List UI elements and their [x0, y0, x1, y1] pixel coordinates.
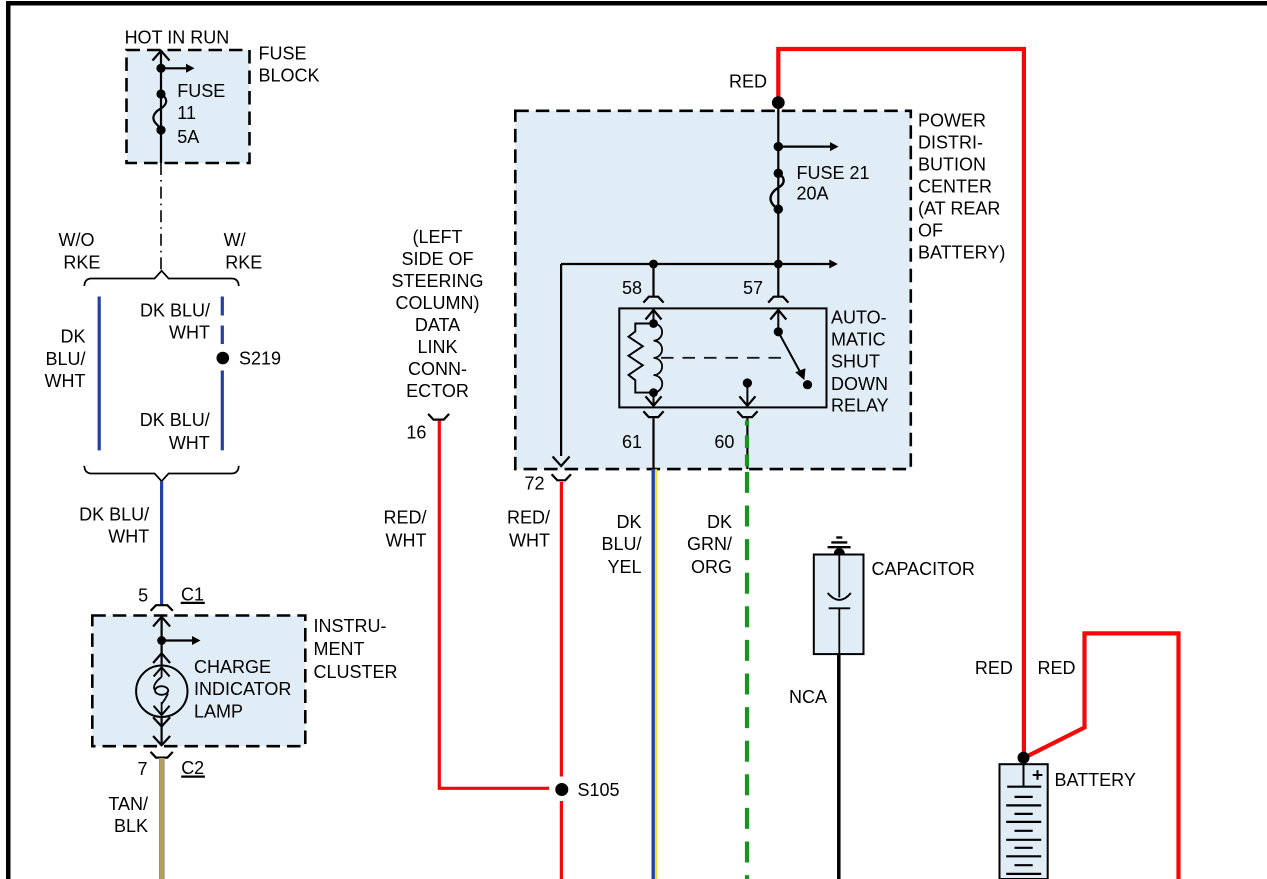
svg-text:5A: 5A	[177, 127, 199, 147]
wire RED battery feed top	[778, 49, 1024, 758]
wire DK BLU/YEL blue stripe	[652, 469, 655, 879]
coil relay	[654, 324, 663, 393]
svg-text:57: 57	[743, 278, 763, 298]
svg-text:RKE: RKE	[225, 253, 262, 273]
label POWER DISTRIBUTION CENTER	[918, 111, 1005, 263]
connector pin 72 symbol	[552, 474, 571, 480]
wire NCA from capacitor	[837, 654, 841, 879]
svg-text:7: 7	[137, 759, 147, 779]
svg-text:DATA: DATA	[415, 315, 460, 335]
node dot switch contact	[803, 380, 812, 389]
connector C2 symbol	[151, 752, 173, 758]
wire coil to pin 61	[653, 393, 655, 406]
label AUTOMATIC SHUT DOWN RELAY	[831, 307, 889, 415]
node dot fuse21 bottom	[774, 205, 783, 214]
svg-text:OF: OF	[918, 221, 943, 241]
svg-text:FUSE: FUSE	[259, 44, 307, 64]
svg-text:STEERING: STEERING	[391, 271, 483, 291]
brace split top	[84, 271, 239, 286]
svg-text:ORG: ORG	[691, 557, 732, 577]
svg-text:WHT: WHT	[509, 530, 550, 550]
battery positive terminal	[1023, 764, 1025, 787]
svg-text:DOWN: DOWN	[831, 374, 888, 394]
wire dash-dot below fuse block	[160, 163, 162, 270]
svg-text:MATIC: MATIC	[831, 330, 886, 350]
node dot pin60 contact	[743, 378, 752, 387]
connector C1 symbol	[151, 605, 173, 611]
svg-text:BLU/: BLU/	[45, 349, 85, 369]
svg-text:RED: RED	[729, 72, 767, 92]
connector pin 60 symbol	[737, 411, 757, 417]
arrow down below lamp	[153, 717, 170, 726]
svg-text:S105: S105	[578, 780, 620, 800]
node dot fuse lower terminal	[156, 125, 165, 134]
arrow up switch entry	[770, 310, 786, 320]
svg-text:11: 11	[177, 103, 196, 123]
lamp filament coil	[161, 667, 163, 677]
wire TAN/BLK	[159, 758, 165, 879]
svg-text:GRN/: GRN/	[687, 534, 732, 554]
wire bus horizontal with arrow	[561, 263, 830, 265]
lamp circle CHARGE INDICATOR LAMP	[136, 666, 187, 717]
svg-text:BLK: BLK	[114, 816, 148, 836]
svg-text:(AT REAR: (AT REAR	[918, 199, 1000, 219]
power distribution center box	[515, 111, 911, 469]
svg-text:CLUSTER: CLUSTER	[314, 662, 398, 682]
svg-text:CHARGE: CHARGE	[194, 657, 271, 677]
arrow down at pin 72 exit	[553, 457, 570, 467]
svg-text:ECTOR: ECTOR	[406, 381, 469, 401]
arrow right from PDC tap	[778, 146, 830, 148]
wire RED battery to right edge	[1024, 633, 1179, 879]
node dot fuse upper terminal	[156, 89, 165, 98]
fuse block box	[127, 50, 250, 163]
svg-text:WHT: WHT	[45, 371, 86, 391]
ground symbol above capacitor	[828, 538, 851, 548]
svg-text:SHUT: SHUT	[831, 352, 880, 372]
wire RED/WHT below S105	[560, 801, 563, 879]
svg-text:DK: DK	[616, 512, 641, 532]
node dot switch pivot	[774, 327, 783, 336]
battery plates	[1006, 787, 1041, 874]
connector pin 57 symbol	[768, 297, 788, 303]
wire DK GRN/ORG	[745, 472, 749, 879]
wire bus left drop to pin 72	[560, 264, 562, 456]
node dot PDC arrow tap	[774, 142, 783, 151]
svg-text:BATTERY: BATTERY	[1055, 770, 1136, 790]
svg-text:NCA: NCA	[789, 687, 827, 707]
svg-text:DK BLU/: DK BLU/	[79, 504, 149, 524]
wire RED/WHT from pin 72	[560, 482, 563, 777]
svg-text:58: 58	[622, 278, 642, 298]
svg-text:DK BLU/: DK BLU/	[140, 410, 210, 430]
svg-text:LINK: LINK	[417, 337, 457, 357]
node dot fuse21 top	[774, 169, 783, 178]
page border top	[6, 1, 1267, 6]
node dot battery positive	[1018, 752, 1030, 764]
relay box ASD	[619, 308, 826, 407]
brace merge bottom	[84, 466, 239, 481]
svg-text:BUTION: BUTION	[918, 155, 986, 175]
svg-text:LAMP: LAMP	[194, 701, 243, 721]
svg-text:CENTER: CENTER	[918, 177, 992, 197]
node dot bus junction 57	[774, 260, 783, 269]
arrow up relay coil entry	[646, 310, 662, 320]
arrow right from cluster node	[162, 639, 193, 641]
svg-text:(LEFT: (LEFT	[412, 227, 462, 247]
wire pin60 contact drop	[746, 383, 748, 406]
wire RED/WHT from DLC	[439, 421, 549, 789]
svg-text:MENT: MENT	[314, 639, 365, 659]
svg-text:16: 16	[406, 423, 426, 443]
wire PDC internal vertical	[777, 103, 779, 264]
connector DLC symbol	[428, 414, 449, 420]
svg-text:5: 5	[138, 586, 148, 606]
svg-text:C2: C2	[181, 758, 204, 778]
svg-text:20A: 20A	[797, 184, 829, 204]
wire below lamp	[161, 717, 163, 745]
splice S105	[555, 783, 568, 796]
arrow right from fuse top node	[161, 67, 187, 69]
svg-text:RED: RED	[975, 658, 1013, 678]
wire cluster internal top	[161, 617, 163, 666]
capacitor element	[828, 555, 851, 655]
wire DK BLU/WHT left branch	[98, 297, 101, 451]
wire pin 61 below relay	[652, 418, 654, 469]
node dot fuse top	[156, 64, 165, 73]
arrow up into HOT IN RUN	[153, 51, 170, 61]
svg-text:INDICATOR: INDICATOR	[194, 679, 291, 699]
instrument cluster box	[92, 616, 305, 747]
svg-text:61: 61	[622, 432, 642, 452]
wire DK GRN/ORG dashes inside PDC	[745, 421, 749, 426]
connector pin 58 symbol	[643, 297, 663, 303]
svg-text:BLU/: BLU/	[601, 534, 641, 554]
connector pin 61 symbol	[643, 411, 663, 417]
battery plus sign	[1033, 770, 1043, 780]
arrow down pin60 exit	[739, 396, 755, 406]
capacitor box	[814, 555, 864, 655]
arrow down coil exit	[646, 396, 662, 406]
svg-text:DISTRI-: DISTRI-	[918, 133, 983, 153]
svg-text:RED/: RED/	[383, 507, 426, 527]
battery box	[1000, 764, 1048, 879]
svg-text:SIDE OF: SIDE OF	[401, 249, 473, 269]
svg-text:WHT: WHT	[386, 530, 427, 550]
svg-text:RED: RED	[1038, 658, 1076, 678]
svg-text:BLOCK: BLOCK	[259, 66, 320, 86]
wire pin 57 drop	[777, 264, 779, 296]
svg-text:DK BLU/: DK BLU/	[140, 300, 210, 320]
svg-text:CAPACITOR: CAPACITOR	[872, 559, 975, 579]
page border left	[6, 1, 11, 879]
arrow up inside lamp	[154, 667, 170, 676]
svg-text:RED/: RED/	[507, 507, 550, 527]
svg-text:INSTRU-: INSTRU-	[314, 616, 387, 636]
svg-text:AUTO-: AUTO-	[831, 307, 887, 327]
svg-text:WHT: WHT	[169, 433, 210, 453]
node dot coil bottom	[649, 388, 658, 397]
svg-text:WHT: WHT	[169, 322, 210, 342]
svg-text:POWER: POWER	[918, 111, 986, 131]
svg-text:RKE: RKE	[63, 253, 100, 273]
svg-text:W/: W/	[224, 230, 246, 250]
svg-text:RELAY: RELAY	[831, 396, 889, 416]
svg-text:WHT: WHT	[108, 527, 149, 547]
node dot cluster	[157, 636, 166, 645]
wire DK BLU/WHT merged	[160, 481, 163, 604]
wire DK BLU/WHT right branch dashed top	[221, 297, 224, 345]
arrow up above lamp	[153, 653, 170, 663]
node dot RED at PDC	[772, 96, 785, 109]
svg-text:DK: DK	[707, 512, 732, 532]
resistor relay	[629, 324, 654, 393]
svg-text:FUSE: FUSE	[177, 81, 225, 101]
label DATA LINK CONNECTOR block	[391, 227, 483, 401]
svg-text:S219: S219	[239, 349, 281, 369]
svg-text:DK: DK	[60, 326, 85, 346]
node dot bus junction 58	[649, 260, 658, 269]
svg-text:FUSE 21: FUSE 21	[797, 163, 870, 183]
svg-text:W/O: W/O	[59, 230, 95, 250]
relay internal dashed link	[661, 357, 789, 359]
svg-text:HOT IN RUN: HOT IN RUN	[125, 28, 230, 48]
wire pin 58 drop	[652, 264, 654, 296]
fuse F21 element squiggle	[771, 173, 784, 209]
splice S219	[217, 352, 230, 365]
arrow down inside lamp	[154, 706, 170, 715]
svg-text:COLUMN): COLUMN)	[396, 293, 480, 313]
node dot coil top	[649, 319, 658, 328]
svg-text:TAN/: TAN/	[108, 794, 148, 814]
arrow down at cluster exit	[153, 736, 170, 745]
fuse F11 element squiggle	[153, 94, 166, 130]
node dot capacitor ground	[834, 548, 845, 559]
wire DK BLU/WHT right branch solid	[221, 371, 224, 451]
wire fuse block vertical	[160, 52, 162, 164]
svg-text:CONN-: CONN-	[408, 359, 467, 379]
svg-text:C1: C1	[181, 585, 204, 605]
switch blade with arrow	[778, 332, 801, 375]
svg-text:BATTERY): BATTERY)	[918, 243, 1005, 263]
svg-text:72: 72	[524, 474, 544, 494]
wire DK BLU/YEL yellow stripe	[655, 469, 657, 879]
wire pin 60 below relay	[746, 418, 748, 469]
svg-text:YEL: YEL	[607, 557, 641, 577]
svg-text:60: 60	[714, 432, 734, 452]
arrow up cluster entry	[153, 617, 170, 627]
